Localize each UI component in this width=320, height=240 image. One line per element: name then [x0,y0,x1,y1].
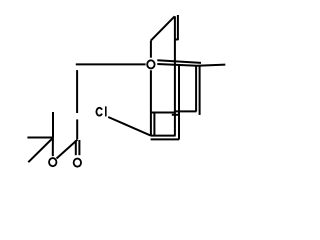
bond ether O stem down [150,70,152,135]
bond far right vertical pair b [199,66,201,115]
bond right ring vertical pair b [178,65,180,139]
bond tBu C to ester O [52,138,54,156]
bond tBu methyl left [27,137,53,139]
bond far right vertical pair a [195,66,197,112]
atom label ether O [147,60,154,68]
atom label Cl letter C [96,108,102,116]
atom label carbonyl O [74,159,81,167]
bond C=C right of O partner line [157,60,201,63]
bond horizontal to ether O [76,63,146,65]
bond carbonyl C up vertical lower segment [76,119,78,139]
atom label Cl letter l [105,106,107,116]
bond small ring inner vertical [153,113,155,135]
bond bottom edge double line 2 [151,138,180,140]
bond vertical upper segment [76,70,78,113]
carbonyl C=O double bond line 1 [75,140,77,155]
bond long horizontal right [157,64,225,66]
carbonyl C=O double bond line 2 [78,140,80,155]
bond diagonal to apex [151,16,175,40]
bond short inner bar below top edge [172,114,179,116]
bond small ring top edge right [174,110,196,112]
bond ester O to carbonyl C [57,140,78,159]
bond bottom edge double line 1 [151,135,176,137]
bond small ring top edge left [151,112,175,114]
bond ether O stem up [150,41,152,58]
bond tBu methyl up [52,112,54,138]
bond jog connecting double partner [175,39,178,41]
bond long vertical through right ring [174,16,176,135]
bond tBu methyl down-left [28,138,53,162]
atom label ester O [49,158,56,166]
bond top C=C double partner [177,15,179,40]
bond Cl diagonal [108,117,151,136]
